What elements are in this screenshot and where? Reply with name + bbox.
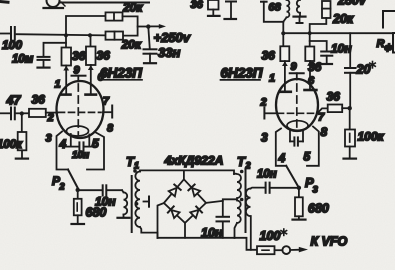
svg-text:5: 5 — [92, 137, 99, 151]
svg-text:4: 4 — [59, 137, 67, 151]
transformer T1 core — [131, 176, 133, 232]
capacitor 10n (screen byp right) — [310, 41, 333, 63]
capacitor 10m electrolytic — [38, 43, 67, 67]
svg-text:100к: 100к — [0, 139, 23, 151]
wire upper plate rail — [66, 16, 106, 48]
wire T1 top rail to T2 — [140, 170, 234, 174]
transformer T2 secondary — [246, 189, 251, 217]
label P3 — [305, 175, 319, 196]
svg-text:2: 2 — [260, 97, 267, 109]
svg-text:33н: 33н — [158, 45, 180, 60]
diode D4 — [190, 207, 202, 219]
label 6N23P (V2) — [221, 66, 263, 81]
cathode bracket V1 — [57, 132, 105, 170]
capacitor 47 (grid input) — [0, 108, 29, 120]
node +250v — [146, 24, 150, 28]
ground (top-mid resistor) — [208, 15, 220, 17]
wire stub top (to 68 coil net) — [261, 2, 283, 22]
svg-text:100к: 100к — [358, 130, 385, 144]
resistor 36 (V2 anode-2) — [305, 47, 314, 62]
tube V2 anode a (pin 1) — [279, 61, 290, 92]
svg-text:6Н23П: 6Н23П — [100, 66, 142, 81]
svg-text:1: 1 — [55, 79, 61, 91]
ground (680 V2) — [293, 219, 306, 221]
wire dangling (top right) — [383, 11, 395, 28]
T2 polarity dot mid — [240, 198, 244, 202]
resistor 36 (V2 grid-2) — [328, 105, 343, 113]
wire to pin 2 — [46, 112, 58, 114]
capacitor 10n (V1 cathode out) — [78, 185, 122, 195]
T1 polarity dot mid — [135, 202, 139, 206]
svg-text:20к: 20к — [121, 38, 142, 52]
wire 20k to anode-2 net — [310, 18, 327, 47]
svg-text:100: 100 — [260, 229, 281, 243]
wire to 100k node — [342, 107, 350, 109]
tube V1 anode b (pin 6) — [86, 65, 97, 95]
resistor 20k lower — [106, 32, 124, 40]
svg-text:36: 36 — [327, 90, 341, 104]
svg-text:8: 8 — [321, 125, 328, 139]
svg-text:20к: 20к — [122, 1, 143, 15]
ground (T1 primary) — [118, 217, 130, 219]
connector circle — [275, 246, 291, 254]
capacitor 10n (to P3) — [251, 183, 299, 193]
tube V1 center shield (dashed) — [77, 84, 79, 135]
inductor 68 — [283, 0, 289, 22]
svg-text:10н: 10н — [72, 150, 89, 161]
resistor 36 (top-mid, cut) — [208, 0, 219, 15]
diode D3 — [168, 206, 180, 218]
wire 20k join right — [123, 16, 138, 35]
svg-text:К: К — [311, 235, 320, 249]
svg-text:20: 20 — [356, 63, 371, 77]
connector J (cut-off circle, top-left) — [44, 1, 66, 9]
wire anode-2 rail — [17, 34, 106, 35]
resistor 20k (right supply) — [322, 1, 331, 18]
svg-text:9: 9 — [291, 61, 298, 73]
svg-text:100: 100 — [2, 38, 22, 52]
top-left corner mark — [0, 0, 8, 4]
svg-text:ф: ф — [385, 42, 393, 52]
heater pins 4,5 with cap 10n — [66, 134, 94, 151]
svg-text:1: 1 — [269, 73, 275, 85]
ground (680 V1) — [72, 223, 85, 225]
svg-text:5: 5 — [304, 150, 311, 164]
capacitor 100 (left edge input) — [0, 27, 15, 40]
grounded stub (mid top) — [297, 0, 300, 16]
wire bridge bottom drop — [184, 223, 186, 238]
ground (10n right) — [322, 63, 333, 65]
resistor 36 anode-2 — [86, 47, 96, 66]
wire 68 node down — [282, 22, 284, 47]
node 100k junction — [348, 106, 352, 110]
cathode bracket V2 — [276, 127, 319, 166]
wire bottom rail — [158, 237, 235, 239]
svg-text:R: R — [377, 38, 385, 50]
svg-text:2: 2 — [59, 182, 65, 192]
pin 2 stub (V2) — [264, 108, 276, 119]
arrow +250v — [148, 24, 166, 29]
capacitor stub (top-mid) — [226, 2, 236, 19]
svg-text:250v: 250v — [337, 0, 367, 8]
wire T2 secondary bottom — [250, 216, 252, 250]
svg-text:9: 9 — [74, 65, 81, 77]
wire bridge top riser — [183, 170, 185, 179]
ground (10m) — [38, 66, 50, 68]
resistor 680 (V2 cathode) — [295, 188, 303, 219]
node junction A2 — [88, 33, 92, 37]
tube V1 anode a (pin 1) — [61, 66, 71, 95]
resistor 36 (V2 anode-1) — [280, 46, 289, 61]
ground (100k) — [16, 158, 28, 160]
wire T1 bottom to rail — [140, 227, 158, 238]
transformer T2 primary upper — [234, 174, 241, 198]
wire T2 primary bottom to rail — [235, 223, 238, 238]
diode bridge ring frame — [164, 179, 206, 223]
label P2 — [52, 174, 65, 192]
svg-text:6Н23П: 6Н23П — [221, 66, 263, 81]
label 6N23P (V1) — [100, 66, 143, 81]
transformer T1 primary — [122, 190, 127, 217]
T2 polarity dot top — [240, 170, 244, 174]
svg-text:VFO: VFO — [322, 235, 348, 249]
switch P2 — [68, 170, 78, 189]
wire bridge right link — [206, 201, 223, 203]
svg-text:10м: 10м — [12, 54, 34, 66]
T1 center tap stub — [144, 197, 150, 207]
transformer T2 core — [245, 169, 247, 232]
svg-text:36: 36 — [262, 49, 276, 63]
T1 polarity dot top — [133, 169, 137, 173]
resistor 100k (V2) — [345, 108, 355, 158]
svg-text:680: 680 — [308, 202, 329, 216]
ground (100k V2) — [344, 158, 357, 160]
resistor 680 (V1 cathode) — [74, 190, 82, 224]
svg-text:3: 3 — [313, 185, 319, 196]
ground (33n) — [144, 62, 156, 64]
node grid junction — [20, 111, 24, 115]
label T2 — [237, 154, 251, 171]
wire top horizontal — [60, 2, 149, 4]
svg-text:2: 2 — [245, 161, 251, 171]
resistor 100* output — [257, 246, 275, 254]
tube V2 envelope 6N23P — [276, 79, 318, 131]
pin 9 stub (V2) — [290, 73, 304, 79]
svg-text:4хКД922А: 4хКД922А — [164, 154, 224, 168]
node P3 junction — [297, 186, 301, 190]
svg-text:3: 3 — [261, 131, 268, 145]
capacitor 33n — [144, 27, 157, 63]
ground (top-mid cap) — [225, 18, 237, 20]
svg-text:20к: 20к — [332, 12, 354, 26]
wire to +250v node — [138, 26, 149, 28]
svg-text:36: 36 — [97, 49, 111, 63]
wire rail to output — [235, 238, 258, 250]
capacitor 20* — [345, 33, 356, 108]
svg-text:7: 7 — [103, 96, 110, 108]
pin 9 stub — [72, 76, 86, 82]
diode D1 — [169, 185, 181, 197]
tube V2 cathodes — [287, 121, 308, 131]
svg-text:1: 1 — [134, 161, 139, 171]
svg-text:3: 3 — [46, 133, 52, 145]
diode D2 — [188, 185, 200, 197]
svg-text:47: 47 — [6, 94, 22, 108]
label T1 — [126, 154, 139, 171]
wire bridge left drop — [158, 203, 164, 238]
resistor Rf box (right edge) — [393, 33, 395, 53]
svg-text:10н: 10н — [201, 226, 223, 240]
tube V2 grids (dashed) — [278, 112, 317, 114]
svg-text:68: 68 — [269, 2, 282, 14]
svg-text:8: 8 — [107, 123, 114, 135]
node junction A1 — [64, 33, 68, 37]
tube V2 center shield (dashed) — [296, 84, 298, 128]
heater pins 4,5 (V2) with cap — [290, 130, 303, 146]
svg-text:+250v: +250v — [154, 30, 191, 45]
svg-text:36: 36 — [72, 49, 86, 63]
svg-text:4: 4 — [278, 151, 286, 165]
pin 7 stub (V1) — [103, 106, 112, 118]
switch P3 — [286, 166, 299, 188]
resistor 20k upper — [106, 12, 123, 20]
svg-text:2: 2 — [47, 112, 54, 124]
pin 7 wire (V2) — [318, 108, 328, 112]
node junction (20k net) — [308, 31, 312, 35]
transformer T2 primary lower — [237, 201, 241, 224]
svg-text:10н: 10н — [95, 195, 116, 209]
tube V1 cathodes — [67, 126, 89, 136]
node anode net R — [281, 31, 285, 35]
transformer T1 secondary — [135, 172, 140, 228]
tube V2 anode b (pin 6) — [305, 61, 317, 90]
node cathode junction — [76, 188, 80, 192]
wire long top net — [283, 32, 393, 34]
ground (mid stub) — [294, 17, 306, 23]
arrow K VFO — [290, 247, 308, 253]
svg-text:36: 36 — [32, 93, 46, 107]
tube V1 envelope 6N23P — [57, 81, 104, 138]
capacitor 10n (mixer out) — [217, 217, 230, 238]
label Rf — [377, 38, 393, 52]
tube V1 grids (dashed) — [59, 111, 102, 113]
wire T2 tap to cap — [223, 199, 237, 216]
resistor 36 grid (horizontal) — [29, 109, 46, 117]
svg-text:36: 36 — [191, 0, 204, 11]
svg-text:7: 7 — [318, 112, 325, 124]
resistor 100k grid leak — [18, 114, 27, 159]
svg-text:10н: 10н — [257, 169, 277, 181]
wire resistor2 to rail — [90, 36, 92, 47]
svg-text:10н: 10н — [331, 42, 352, 56]
resistor 36 anode-1 — [62, 48, 72, 66]
